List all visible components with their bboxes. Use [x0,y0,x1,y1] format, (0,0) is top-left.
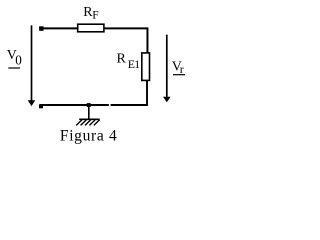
wire: bottom net right segment (corner to gap) [111,104,148,106]
node A (top-left junction dot) [39,26,44,31]
resistor RF [78,24,104,32]
node C (ground junction dot) [87,103,91,107]
arrow V0 (left voltage arrow, pointing down) [28,25,36,106]
label RE1 [117,52,141,71]
wire: top net from node A to right corner down to RE1 [41,28,147,53]
label RF [83,5,99,21]
wire: RE1 bottom lead to bottom corner [146,80,148,105]
svg-text:E1: E1 [128,57,140,71]
label V0 (underlined) [7,48,22,68]
ground (stub, bar and hatching) [76,105,100,125]
svg-text:R: R [117,52,127,67]
svg-text:Figura 4: Figura 4 [60,127,118,144]
wire: bottom net left segment (gap to node B) [40,104,109,106]
arrow Vr (right voltage arrow, pointing down) [163,35,171,103]
label Vr (underlined) [172,59,185,76]
node B (bottom-left junction dot) [39,104,43,108]
resistor RE1 [142,53,150,81]
svg-text:F: F [92,10,98,22]
svg-text:0: 0 [15,52,22,67]
